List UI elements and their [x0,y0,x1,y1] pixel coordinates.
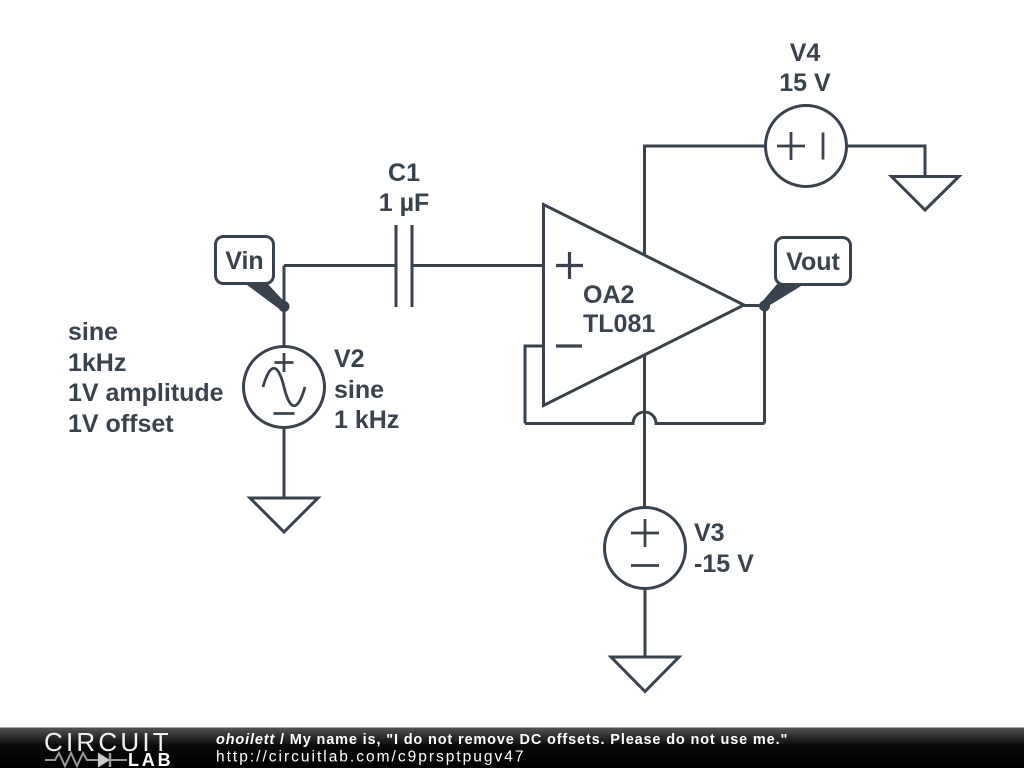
wire op-amp V- supply (bottom pin down to V3) [643,356,646,508]
voltage source V3 (-15 V dc) [605,508,686,589]
wire op-amp output stub to Vout node [744,304,765,307]
wire V2 minus terminal to ground [283,428,286,499]
svg-text:V2: V2 [334,345,365,373]
wire output down from Vout node [763,306,766,424]
wire V4 minus to ground [847,146,926,177]
wire input left segment (Vin node to C1 left plate) [284,264,396,267]
capacitor C1 value labels [379,159,430,217]
svg-text:1kHz: 1kHz [68,349,126,377]
wire C1 right plate to op-amp +in [412,264,544,267]
svg-text:C1: C1 [388,159,420,187]
V4 labels [779,39,831,97]
svg-text:sine: sine [334,376,384,404]
V2 parameter text block [68,318,224,438]
logo resistor-diode glyph [45,753,127,767]
svg-text:sine: sine [68,318,118,346]
svg-text:-15 V: -15 V [694,550,754,578]
voltage source V4 (15 V dc) [766,106,847,187]
ground (below V3) [611,657,679,692]
svg-text:V3: V3 [694,519,725,547]
voltage source V2 (sine) [244,347,325,428]
svg-text:Vout: Vout [786,248,840,276]
svg-text:1V offset: 1V offset [68,410,174,438]
svg-text:1V amplitude: 1V amplitude [68,379,224,407]
op-amp OA2 labels [583,281,655,338]
net flag Vin [216,237,286,310]
ground (right of V4) [892,177,960,211]
svg-text:1 µF: 1 µF [379,189,430,217]
wire feedback vertical up to -in stub [525,346,544,424]
svg-text:LAB: LAB [128,750,173,768]
wire feedback horizontal with hop over supply wire [525,412,765,424]
V2 labels [334,345,399,434]
svg-text:ohoilett / My name is, "I do n: ohoilett / My name is, "I do not remove … [216,732,788,748]
node Vin junction dot [279,301,290,312]
svg-text:http://circuitlab.com/c9prsptp: http://circuitlab.com/c9prsptpugv47 [216,749,526,766]
capacitor C1 [396,225,412,307]
svg-text:TL081: TL081 [583,310,655,338]
svg-text:V4: V4 [790,39,821,67]
wire Vin vertical (node to V2 plus terminal) [283,266,286,348]
svg-text:Vin: Vin [225,247,263,275]
node Vout junction dot [759,301,770,312]
net flag Vout [763,238,851,307]
svg-text:15 V: 15 V [779,69,831,97]
svg-text:1 kHz: 1 kHz [334,406,399,434]
footer bar [0,727,1024,768]
wire op-amp V+ supply (top pin up and over to V4) [645,146,766,255]
ground (below V2) [250,498,318,532]
wire V3 minus to ground [644,589,647,658]
op-amp OA2 [544,205,745,406]
svg-text:OA2: OA2 [583,281,634,309]
V3 labels [694,519,754,578]
